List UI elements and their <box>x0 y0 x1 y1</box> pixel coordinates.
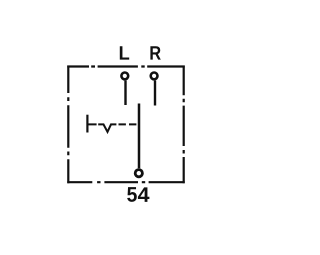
terminal circle R <box>151 73 158 80</box>
terminal circle 54 <box>135 170 142 177</box>
enclosure (dash-dot case outline) <box>67 66 184 184</box>
mechanical linkage (dashed) to pole <box>119 123 137 125</box>
wire stub from terminal R <box>154 81 156 106</box>
label R <box>150 46 160 59</box>
label L <box>120 46 129 59</box>
terminal circle L <box>121 73 128 80</box>
label 54 : digit 4 <box>138 187 150 202</box>
label 54 : digit 5 <box>127 187 137 202</box>
wire stub from terminal L <box>124 81 126 105</box>
switch pole wire (common) <box>138 104 141 169</box>
manual actuator lever with v-notch <box>88 124 116 131</box>
manual actuator end-stop bar <box>86 115 88 133</box>
